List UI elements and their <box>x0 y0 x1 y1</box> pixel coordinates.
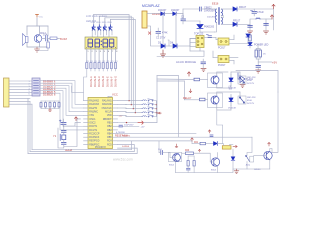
transistor Q9 <box>211 158 219 167</box>
svg-text:1N4007: 1N4007 <box>171 9 180 12</box>
svg-text:1N4148: 1N4148 <box>228 108 236 110</box>
wire pack row 3 to MCU <box>40 86 84 112</box>
svg-text:RB1: RB1 <box>107 123 112 125</box>
wire cell2 down to coil <box>217 110 223 144</box>
button S4 <box>142 111 157 113</box>
svg-text:TOP223: TOP223 <box>194 33 204 36</box>
pack pin numbers <box>29 81 31 96</box>
red arrow near R20 <box>198 150 200 153</box>
cap reset <box>119 125 123 127</box>
svg-text:VSS: VSS <box>89 115 94 117</box>
junction dots bus <box>129 100 136 113</box>
svg-text:DUAN-E: DUAN-E <box>105 76 109 87</box>
svg-text:RB2: RB2 <box>107 126 112 128</box>
led fb <box>246 34 250 37</box>
svg-text:RA2/AN2: RA2/AN2 <box>89 100 99 103</box>
TL431 U5 <box>238 73 245 83</box>
svg-text:OSC/CLK: OSC/CLK <box>102 108 113 110</box>
svg-text:RELAY: RELAY <box>183 96 192 100</box>
svg-text:RB3: RB3 <box>107 130 112 132</box>
svg-text:DUAN-A: DUAN-A <box>89 76 93 87</box>
button common rail <box>155 101 157 117</box>
svg-text:BUZZ: BUZZ <box>60 37 67 41</box>
svg-text:221: 221 <box>90 61 93 63</box>
transistor Q7 <box>211 96 219 104</box>
wire pack row 2 to MCU <box>40 83 84 108</box>
labels 8550 above digit transistors <box>91 22 113 24</box>
svg-text:P6KE200: P6KE200 <box>204 26 215 29</box>
varistor RV <box>148 32 151 35</box>
rail 5V <box>237 19 272 30</box>
resistor pair <box>255 50 257 57</box>
crystal Y1 <box>62 135 66 140</box>
ground tl431 <box>240 85 245 88</box>
relay contact <box>245 155 253 162</box>
wire digit3 bus <box>105 18 133 109</box>
svg-text:RA5/MC: RA5/MC <box>89 111 98 114</box>
cap right of U2 <box>206 34 211 37</box>
red gnd mark below pullups <box>49 109 52 112</box>
cap C13 <box>161 151 163 155</box>
base cluster resistor B <box>193 161 195 167</box>
diode D6 <box>233 7 237 11</box>
svg-text:DC12V: DC12V <box>247 83 255 85</box>
svg-text:DUAN-B: DUAN-B <box>93 76 97 87</box>
svg-text:R20: R20 <box>185 150 190 152</box>
wire pack row 6 to MCU <box>40 93 84 130</box>
base cluster resistor A <box>187 161 189 167</box>
transistor T1 box <box>168 152 181 161</box>
svg-text:221: 221 <box>94 61 97 63</box>
svg-text:DUAN-C: DUAN-C <box>97 76 101 87</box>
svg-text:RA0/AN0: RA0/AN0 <box>102 103 112 106</box>
svg-text:POWER LED: POWER LED <box>254 44 269 47</box>
speaker LS1 <box>23 34 29 46</box>
transistor Q5 <box>34 35 42 43</box>
wires between diodes <box>165 39 196 47</box>
svg-text:474K: 474K <box>162 32 168 35</box>
cap C6 <box>62 131 67 133</box>
pack net labels <box>43 79 56 97</box>
vertical rails from diodes <box>163 14 183 47</box>
resistor R8 <box>114 63 116 69</box>
svg-text:JRC-21F: JRC-21F <box>247 77 256 79</box>
svg-text:JRC-21F: JRC-21F <box>247 97 256 99</box>
crystal wires <box>64 119 81 148</box>
svg-text:RB7/PGD: RB7/PGD <box>89 141 99 143</box>
svg-text:RC2/CCP: RC2/CCP <box>89 133 100 135</box>
inductor L1 <box>256 18 260 19</box>
net labels at mcu bottom right rows <box>122 135 131 148</box>
button S2 <box>142 103 157 105</box>
display inner pin dots <box>86 46 116 49</box>
svg-text:+5V: +5V <box>141 126 145 128</box>
relay coil L2 <box>222 146 231 149</box>
resistor R5 <box>102 63 104 69</box>
cap C1 <box>156 32 161 34</box>
svg-text:221: 221 <box>102 61 105 63</box>
wire pack row 4 to MCU <box>40 88 84 115</box>
button S5 <box>142 115 157 117</box>
transistor Q2 <box>98 25 101 31</box>
transistor T1 <box>173 153 181 161</box>
rail 12V wire <box>237 9 274 30</box>
ground 5v <box>256 70 261 73</box>
resistor R3 <box>94 63 96 69</box>
svg-text:OSC2: OSC2 <box>89 123 96 125</box>
resistor R7 <box>110 63 112 69</box>
svg-text:FR107: FR107 <box>233 20 241 23</box>
flyback diode D11 <box>231 149 235 169</box>
long 5v feedback wire <box>236 71 278 93</box>
svg-text:RB4: RB4 <box>107 133 112 135</box>
svg-text:104J630V: 104J630V <box>204 10 215 13</box>
cap C5 <box>251 10 257 13</box>
cap C11 <box>256 66 261 68</box>
wire pack row 1 to MCU <box>40 81 84 105</box>
cap C3 horizontal top <box>200 7 202 11</box>
svg-text:9014: 9014 <box>211 170 217 172</box>
connector pins <box>9 81 32 104</box>
svg-text:PC817: PC817 <box>218 64 226 67</box>
cap C7 <box>62 143 67 145</box>
Q8 wires <box>254 92 278 169</box>
button S3 <box>142 107 157 109</box>
svg-text:RB5: RB5 <box>107 137 112 139</box>
svg-text:C1 275V: C1 275V <box>156 37 166 40</box>
cap C8 <box>248 26 253 28</box>
diode cell2 <box>229 95 233 106</box>
transistor Q8 <box>264 151 272 160</box>
ic wires <box>157 38 216 57</box>
svg-text:9014: 9014 <box>169 165 175 167</box>
svg-text:S-8550: S-8550 <box>122 146 130 148</box>
capacitor C12 <box>46 36 48 42</box>
svg-text:RC0/T1: RC0/T1 <box>89 126 98 128</box>
svg-text:470uF: 470uF <box>257 11 264 14</box>
transistor box cell1 <box>208 73 223 88</box>
digits 88:88 <box>88 39 114 47</box>
resistor R17 horizontal <box>50 37 57 40</box>
svg-text:RA3/AN3: RA3/AN3 <box>89 103 99 106</box>
wire digit2 bus <box>99 16 131 105</box>
wire digit4 bus <box>111 19 136 112</box>
cap C2 <box>181 19 186 21</box>
label above diode cell2 <box>229 86 233 91</box>
svg-text:Y1: Y1 <box>53 134 57 138</box>
red gnd arrow cell2 <box>189 89 192 93</box>
diode D2 <box>173 12 183 15</box>
ground ac <box>161 50 166 57</box>
svg-text:221: 221 <box>111 61 114 63</box>
svg-text:RC5: RC5 <box>107 144 112 146</box>
pin numbers <box>87 51 118 53</box>
wires transistors to display <box>92 30 112 37</box>
wire pack row 5 to MCU <box>40 91 84 127</box>
svg-text:4100: 4100 <box>247 80 253 82</box>
wire left vertical <box>58 128 64 148</box>
diode D7 <box>233 22 237 26</box>
cap C9 <box>264 24 269 26</box>
svg-text:PC817: PC817 <box>218 47 226 50</box>
resistor R21 <box>200 142 206 145</box>
connector wires <box>147 14 161 47</box>
svg-text:1N4007: 1N4007 <box>158 9 167 12</box>
colon <box>101 41 102 46</box>
svg-text:VCC: VCC <box>39 17 44 19</box>
svg-text:4100: 4100 <box>247 100 253 102</box>
gnd arrow right of buttons <box>157 112 161 114</box>
red power arrow R21 <box>191 138 194 142</box>
small cap mid <box>210 135 213 137</box>
red power arrow mid <box>208 130 211 133</box>
svg-text:DC12V: DC12V <box>247 103 255 105</box>
relay contact cell1 <box>238 76 246 84</box>
resistor R20 <box>186 152 194 155</box>
svg-text:221: 221 <box>115 61 118 63</box>
secondary windings <box>221 9 222 24</box>
button S1 <box>142 99 157 101</box>
svg-text:+5V: +5V <box>119 115 123 117</box>
resistor R13 vertical <box>249 35 251 41</box>
wire row mclr <box>118 122 139 124</box>
svg-text:10uF/25V: 10uF/25V <box>124 125 134 127</box>
svg-text:DUAN-F: DUAN-F <box>109 76 113 87</box>
svg-text:221: 221 <box>106 61 109 63</box>
diode D1 <box>161 12 173 15</box>
wire branch horizontal <box>27 25 48 27</box>
svg-text:VCC: VCC <box>112 93 118 97</box>
svg-text:DUAN-G: DUAN-G <box>114 76 118 87</box>
power arrow cell1 <box>188 72 191 76</box>
ground out1 <box>248 31 253 34</box>
resistor cell2 <box>200 98 206 101</box>
zener D5 <box>197 25 203 29</box>
svg-text:PIC16F72: PIC16F72 <box>95 146 106 149</box>
svg-text:RC4: RC4 <box>107 141 112 143</box>
svg-text:RB0/INT: RB0/INT <box>103 119 112 121</box>
svg-text:221: 221 <box>98 61 101 63</box>
junction dots <box>156 104 157 113</box>
transistor Q4 <box>109 25 112 31</box>
transformer wires <box>215 9 233 32</box>
resistor pack RP1 <box>32 78 40 96</box>
bottom rail <box>176 169 270 173</box>
svg-text:RC3/SCK: RC3/SCK <box>89 137 99 139</box>
svg-text:VDD: VDD <box>107 115 112 117</box>
resistor R6 <box>106 63 108 69</box>
svg-text:104 2KV: 104 2KV <box>207 17 216 19</box>
display pin wires below <box>87 49 116 63</box>
mcu pin name text right column <box>102 100 113 147</box>
transistor Q6 <box>211 76 219 84</box>
gnd cell1 <box>201 69 206 72</box>
svg-text:+5V: +5V <box>272 61 277 65</box>
wire from long line down <box>158 141 160 153</box>
svg-text:MCLR: MCLR <box>105 112 112 114</box>
series diode D3 <box>161 44 165 48</box>
svg-text:JDQ: JDQ <box>246 165 251 167</box>
svg-text:RC1/T1: RC1/T1 <box>89 130 98 132</box>
svg-text:RA4/T0: RA4/T0 <box>89 107 98 110</box>
base cluster cap <box>187 168 191 170</box>
resistor R4 <box>98 63 100 69</box>
svg-text:221: 221 <box>86 61 89 63</box>
resistor net labels (vertical red) <box>89 76 118 87</box>
core <box>218 8 219 25</box>
red label above Q8 <box>268 143 271 147</box>
svg-text:OSC1: OSC1 <box>89 119 96 121</box>
mcu pin name text left column <box>89 100 100 147</box>
cap cell1 <box>201 62 206 64</box>
red net arrow mclr <box>138 121 144 124</box>
mcu left pin stubs <box>84 101 89 145</box>
svg-text:www.51c.com: www.51c.com <box>113 158 133 162</box>
wire resistor1 to mcu pin1 <box>72 69 87 101</box>
ground bottom right <box>234 169 239 174</box>
wire vcc down <box>36 18 38 26</box>
red net arrow right of coil <box>233 145 237 147</box>
resistor R1 <box>86 63 88 69</box>
resistor R2 <box>90 63 92 69</box>
connector J2 <box>142 11 147 28</box>
junction dot mclr <box>126 122 127 123</box>
resistor R16 vertical <box>47 42 50 48</box>
ground out2 <box>264 31 269 34</box>
wire speaker drop <box>26 26 28 35</box>
svg-text:104: 104 <box>43 33 48 37</box>
primary winding <box>215 9 216 23</box>
svg-text:RA1/AN1: RA1/AN1 <box>102 100 112 103</box>
svg-text:EE16: EE16 <box>212 2 219 6</box>
power VCC symbol <box>36 15 39 18</box>
svg-text:MC26PLAZ: MC26PLAZ <box>142 4 160 8</box>
red power arrow left of mcu <box>75 117 78 121</box>
decoupling cap electrolytic left of mcu <box>59 120 66 125</box>
svg-text:AC-DC MODULE: AC-DC MODULE <box>176 60 196 64</box>
transistor Q3 <box>103 25 106 31</box>
wire speaker to gnd <box>27 43 47 48</box>
transistor box cell2 <box>208 93 223 108</box>
power arrow +5V <box>271 15 274 19</box>
power arrow +12V <box>272 5 275 9</box>
svg-text:DUAN-D: DUAN-D <box>101 76 105 87</box>
transistor Q1 <box>92 25 95 31</box>
power led <box>248 43 252 46</box>
display body <box>85 37 117 49</box>
resistor cell1 <box>194 78 200 81</box>
series diode D4 <box>173 44 177 48</box>
diode D10 <box>214 142 223 146</box>
mcu right pin stubs <box>113 101 118 145</box>
ground <box>35 47 40 52</box>
short stubs below resistors <box>91 69 116 72</box>
svg-text:FR107: FR107 <box>239 6 247 9</box>
connector drop wires to border bus <box>28 98 32 153</box>
wires transistor tops <box>94 15 111 27</box>
diode cell1 <box>229 75 233 86</box>
relay contact cell2 <box>238 96 246 104</box>
wire digit1 bus <box>94 15 129 101</box>
red gnd mark above T1 <box>175 144 178 148</box>
